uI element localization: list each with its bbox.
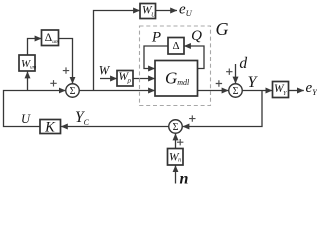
dashed box G (140, 26, 211, 106)
label d (239, 55, 247, 72)
label Gmdl (165, 69, 190, 88)
label Wrho (119, 71, 132, 85)
svg-text:eU: eU (179, 2, 193, 19)
wire S3 output YC into K (61, 126, 169, 128)
label G (216, 19, 229, 39)
label P (151, 30, 161, 46)
block Wn (168, 149, 184, 166)
svg-text:Y: Y (248, 74, 259, 91)
plus sign Wn input S3 (177, 139, 183, 145)
svg-text:Σ: Σ (233, 86, 239, 97)
block Delta (168, 38, 184, 55)
label YC (75, 109, 90, 127)
label WY (274, 83, 287, 97)
wire Gmdl output to sum S2 (198, 90, 229, 92)
wire WU to eU (156, 10, 178, 12)
wire Wrho to Gmdl middle input (133, 78, 155, 80)
svg-text:Q: Q (191, 28, 202, 44)
wire Dum down into sum S1 (59, 39, 73, 84)
wire Wum to Dum (28, 39, 42, 56)
wire Y from S2 to WY (242, 90, 272, 92)
wire P loop Delta down into Gmdl top input (144, 46, 168, 69)
svg-text:K: K (44, 120, 56, 136)
plus sign Gmdl output into S2 (216, 80, 222, 86)
svg-text:P: P (151, 30, 161, 46)
svg-text:Σ: Σ (70, 86, 76, 97)
sum S2 circle (229, 84, 243, 98)
wire WY to eY (289, 90, 304, 92)
sum S1 circle (66, 84, 80, 98)
block K (40, 120, 61, 134)
label eU (179, 2, 193, 19)
wire S1 output to Gmdl lower input (79, 90, 155, 92)
label eY (306, 80, 319, 97)
block WY (273, 82, 289, 98)
svg-text:d: d (239, 55, 247, 72)
plus sign top input S1 (63, 67, 69, 73)
wire d input into sum S2 (235, 64, 237, 83)
svg-text:G: G (216, 19, 229, 39)
wire U feedback from K up left side into sum S1 (4, 91, 66, 127)
svg-text:U: U (21, 112, 31, 126)
plus sign Y feedback into S3 (189, 115, 195, 121)
label Y (248, 74, 259, 91)
block Wum (19, 55, 35, 71)
wire Q loop Gmdl up into Delta (184, 46, 204, 69)
svg-text:eY: eY (306, 80, 318, 97)
wire branch up to WU (94, 11, 140, 91)
label U (21, 112, 31, 126)
svg-text:W: W (99, 64, 111, 78)
label Wum (21, 58, 37, 71)
wire W input to Wrho (100, 78, 117, 80)
label Dum (45, 32, 59, 45)
plus sign d input S2 (226, 69, 232, 75)
block Dum (42, 30, 59, 46)
block Gmdl (155, 61, 198, 97)
wire n input into Wn (175, 165, 177, 183)
label Sigma S1 (70, 86, 76, 97)
label K (44, 120, 56, 136)
sum S3 circle (169, 120, 183, 134)
plus sign left input S1 (50, 80, 56, 86)
label Sigma S2 (233, 86, 239, 97)
label Q (191, 28, 202, 44)
wire Y feedback down into sum S3 (183, 91, 262, 127)
svg-text:Σ: Σ (173, 122, 179, 133)
label WU (142, 5, 156, 19)
svg-text:Δ: Δ (172, 40, 179, 52)
label Wn (169, 152, 181, 164)
label Delta (172, 40, 179, 52)
block Wrho (117, 71, 133, 87)
label n (180, 171, 189, 188)
svg-text:n: n (180, 171, 189, 185)
label Sigma S3 (173, 122, 179, 133)
label W input (99, 64, 111, 78)
svg-text:YC: YC (75, 109, 90, 127)
wire Wn up into sum S3 (175, 134, 177, 149)
wire branch up into Wum (27, 72, 29, 91)
block WU (140, 4, 156, 19)
